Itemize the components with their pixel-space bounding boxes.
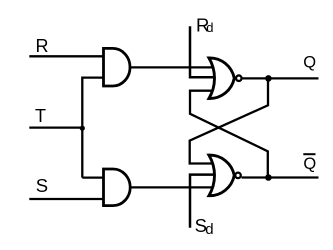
node Q junction: [265, 75, 272, 82]
label Qbar overline: [303, 153, 315, 155]
wire Sd input: [190, 175, 215, 228]
NOR gate lower bubble: [235, 173, 241, 179]
wire feedback Q to NOR2: [190, 78, 268, 163]
svg-text:R: R: [36, 36, 49, 56]
node T junction: [80, 126, 85, 131]
svg-text:T: T: [35, 106, 46, 126]
wire R input: [29, 55, 104, 57]
AND gate lower: [104, 169, 131, 206]
wire T input: [29, 126, 82, 128]
wire T branch to lower AND: [82, 176, 104, 178]
wire S input: [29, 198, 104, 200]
svg-text:d: d: [205, 221, 213, 238]
svg-text:S: S: [36, 175, 48, 196]
svg-text:d: d: [206, 20, 213, 35]
wire T vertical branch: [82, 78, 104, 178]
wire AND1 output to NOR1: [126, 66, 215, 68]
NOR gate upper body: [209, 58, 234, 99]
AND gate upper: [104, 48, 131, 86]
wire AND2 output to NOR2: [126, 186, 215, 188]
wire feedback Qbar to NOR1: [190, 91, 268, 178]
node Qbar junction: [265, 174, 272, 181]
wire Rd input: [190, 26, 215, 77]
svg-text:Q: Q: [303, 54, 316, 72]
svg-text:Q: Q: [303, 155, 316, 173]
NOR gate upper bubble: [236, 75, 242, 81]
wire Q output: [242, 77, 319, 79]
wire Qbar output: [242, 176, 319, 178]
NOR gate lower body: [209, 155, 234, 196]
